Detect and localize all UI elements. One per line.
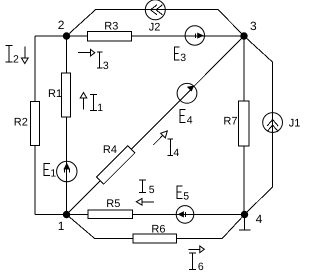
svg-text:6: 6 [198,261,204,273]
voltage source E4 [177,83,197,103]
resistor R1 [62,73,71,117]
node 4 junction dot [241,211,247,217]
current arrow I5 [136,199,154,206]
svg-text:1: 1 [50,167,56,179]
current source J1 [263,113,283,133]
svg-text:R7: R7 [223,115,237,127]
label I2 [6,46,13,62]
svg-text:1: 1 [97,102,103,114]
current arrow I6 [189,246,205,253]
label E4 [180,109,186,123]
node 3 junction dot [241,33,247,39]
label I3 [97,52,103,68]
node 1 junction dot [63,211,69,217]
current arrow I1 [80,93,87,110]
resistor R2 [31,102,40,146]
voltage source E5 [176,206,194,224]
svg-text:R1: R1 [48,88,62,100]
wire top middle node2 to node3 through R3 and E3 [67,35,245,37]
wire node2 to left corner [35,35,67,37]
svg-text:5: 5 [183,190,189,202]
wire top outer path through J2 [67,10,245,37]
svg-text:3: 3 [180,52,186,64]
svg-text:J1: J1 [289,117,300,129]
label E1 [44,163,50,176]
svg-text:R5: R5 [106,198,120,210]
svg-text:4: 4 [187,115,193,127]
current arrow I2 [21,47,28,64]
label E3 [174,46,179,60]
svg-text:R3: R3 [104,20,118,32]
ground at node 4 [239,215,251,231]
wire left side down through R2 branch [34,36,36,215]
label I1 [90,95,97,111]
svg-text:3: 3 [250,19,257,33]
label I4 [168,139,173,156]
svg-text:4: 4 [173,147,179,159]
resistor R3 [88,32,132,41]
current source J2 [145,0,165,20]
svg-text:R2: R2 [14,117,28,129]
wire diagonal node1 to node3 through R4 and E4 [67,36,245,215]
svg-text:3: 3 [103,60,109,72]
svg-text:4: 4 [256,212,263,226]
voltage source E1 [57,161,77,181]
svg-text:2: 2 [13,54,19,66]
svg-text:R4: R4 [103,144,117,156]
wire right outer path through J1 [244,36,273,215]
wire left bottom to node1 [35,214,67,216]
svg-text:J2: J2 [149,21,161,33]
node 2 junction dot [63,33,69,39]
resistor R5 [88,210,133,219]
label I5 [139,180,146,193]
svg-text:1: 1 [58,219,65,233]
resistor R7 [239,101,250,146]
label E5 [177,186,183,199]
wire bottom middle node1 to node4 through R5 and E5 [67,214,245,216]
voltage source E3 [185,26,204,45]
svg-text:R6: R6 [151,223,165,235]
label I6 [189,253,196,269]
svg-text:5: 5 [149,184,155,196]
resistor R6 [133,234,176,243]
current arrow I4 [153,131,167,145]
current arrow I3 [78,49,95,56]
wire node2 down through R1 and E1 to node1 [66,36,68,215]
wire bottom outer path through R6 [67,215,245,239]
resistor R4 [97,146,135,184]
wire right side node3 to node4 through R7 [243,36,245,215]
svg-text:2: 2 [58,18,65,32]
